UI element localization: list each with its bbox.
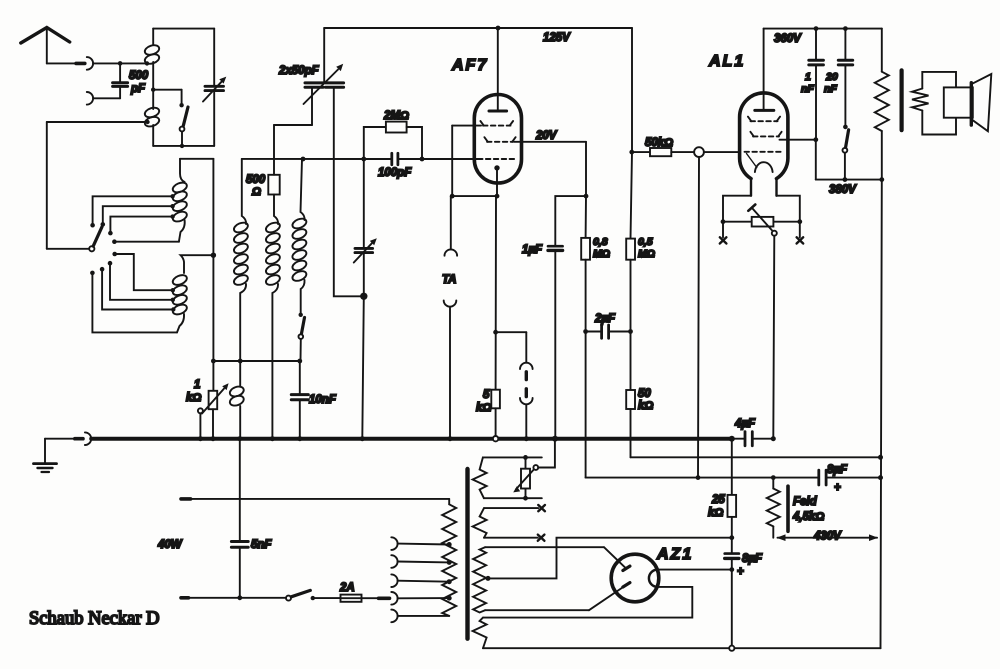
coil L2 frame top bbox=[180, 159, 213, 391]
AL1 grid internal tie bbox=[747, 154, 757, 168]
chassis bus rail bbox=[91, 436, 735, 442]
AL1 control grid bbox=[745, 151, 782, 153]
wire trimmer right to osc line bbox=[334, 89, 364, 297]
right supply rail bbox=[878, 180, 883, 649]
AF7 screen wire 20V bbox=[514, 130, 588, 199]
TA pickup jacks bbox=[442, 196, 457, 439]
wire W4 top to AZ1 filament bbox=[483, 587, 692, 618]
svg-text:MΩ: MΩ bbox=[638, 248, 655, 260]
svg-text:pF: pF bbox=[130, 83, 146, 95]
svg-text:+: + bbox=[737, 566, 744, 578]
AL1 filament bbox=[755, 162, 773, 172]
ground symbol bbox=[34, 439, 57, 472]
AZ1 anode 2 bbox=[623, 583, 630, 587]
power transformer primary bbox=[442, 499, 456, 616]
band switch S2 lever bbox=[89, 227, 102, 252]
coil L7 (osc tuned) bbox=[291, 159, 308, 313]
grid cap connector AL1 bbox=[694, 147, 740, 157]
svg-text:kΩ: kΩ bbox=[638, 400, 653, 412]
capacitor 1uF bbox=[522, 196, 586, 439]
AL1 heater circuit box bbox=[721, 196, 803, 224]
AZ1 anode 1 bbox=[623, 566, 630, 570]
potentiometer 1kOhm bbox=[186, 379, 229, 439]
coil L2 (RF coil) bbox=[170, 159, 188, 242]
capacitor 4uF bbox=[732, 418, 776, 446]
svg-text:2A: 2A bbox=[339, 582, 355, 594]
heater pin marks AL1 bbox=[720, 222, 803, 244]
annotation 430V bbox=[777, 531, 879, 543]
svg-text:1: 1 bbox=[194, 379, 200, 391]
wire contact6 to L3 tap2 bbox=[110, 263, 173, 300]
svg-text:2µF: 2µF bbox=[594, 313, 616, 325]
mains line lower bbox=[181, 596, 286, 600]
mains line upper bbox=[157, 499, 449, 551]
wire 50k bottom to right rail bbox=[631, 455, 884, 460]
svg-text:4µF: 4µF bbox=[734, 418, 756, 430]
node bus y361 bbox=[211, 359, 301, 364]
AL1 grid g3 bbox=[750, 132, 781, 137]
HT rail 360V bbox=[764, 26, 882, 45]
svg-text:380V: 380V bbox=[829, 184, 857, 196]
HV winding W3 bbox=[473, 547, 486, 612]
power transformer core bbox=[465, 469, 469, 639]
AL1 plate wire bbox=[780, 137, 819, 142]
svg-text:50kΩ: 50kΩ bbox=[645, 137, 673, 149]
AF7 grid g2 bbox=[452, 121, 513, 126]
svg-text:AZ1: AZ1 bbox=[656, 546, 693, 563]
tube AZ1 bbox=[611, 546, 693, 602]
field coil Feld 4.5kOhm bbox=[767, 478, 825, 538]
wire L1 bottom tap to switch pivot bbox=[47, 122, 148, 249]
svg-text:20V: 20V bbox=[535, 130, 558, 142]
antenna coil L1 bbox=[144, 29, 161, 146]
speaker cone bbox=[971, 74, 991, 131]
svg-text:1: 1 bbox=[805, 71, 811, 83]
wire contact2 to L2 tap2 bbox=[103, 206, 173, 224]
variable capacitor osc tuning bbox=[354, 159, 377, 439]
svg-text:Schaub Neckar D: Schaub Neckar D bbox=[29, 609, 159, 629]
svg-text:10nF: 10nF bbox=[309, 394, 337, 406]
capacitor 500pF bbox=[113, 63, 149, 98]
svg-text:AF7: AF7 bbox=[451, 57, 488, 74]
top HT rail 125V bbox=[324, 26, 632, 44]
svg-text:125V: 125V bbox=[543, 32, 571, 44]
svg-text:kΩ: kΩ bbox=[476, 402, 491, 414]
capacitor 8uF (cathode) bbox=[725, 538, 763, 651]
wire contact7 to L3 tap3 bbox=[102, 269, 173, 309]
tube AL1 bbox=[708, 53, 788, 196]
svg-text:nF: nF bbox=[801, 83, 814, 95]
svg-text:1µF: 1µF bbox=[522, 244, 543, 256]
earth input jack bbox=[87, 92, 120, 105]
AF7 cathode bbox=[452, 165, 499, 198]
wire contact5 to L3 tap1 bbox=[115, 254, 173, 290]
svg-text:AL1: AL1 bbox=[708, 53, 745, 70]
switch S1 (wave band) bbox=[179, 103, 188, 148]
node antenna-cap junction bbox=[118, 61, 123, 66]
svg-text:50: 50 bbox=[638, 388, 651, 400]
headphone jack bbox=[496, 332, 533, 439]
wire contact3 to L2 tap3 bbox=[110, 217, 172, 234]
svg-text:8µF: 8µF bbox=[742, 553, 763, 565]
coil L4 (osc coupling) bbox=[228, 361, 245, 439]
winding W2 (AZ1 heater) bbox=[473, 508, 539, 538]
grid line (tuned circuits to AF7) bbox=[242, 157, 478, 162]
svg-text:500: 500 bbox=[129, 70, 149, 82]
svg-text:kΩ: kΩ bbox=[186, 392, 201, 404]
coil L6 (grid coil) bbox=[265, 195, 282, 439]
AF7 control grid bbox=[478, 158, 516, 160]
svg-text:0,8: 0,8 bbox=[593, 236, 608, 248]
svg-text:nF: nF bbox=[824, 83, 837, 95]
resistor 50kOhm (plate load) bbox=[626, 332, 653, 458]
svg-text:MΩ: MΩ bbox=[593, 248, 610, 260]
resistor 50kOhm (AL1 grid stopper) bbox=[629, 137, 694, 156]
AL1 grid g2 bbox=[748, 117, 780, 122]
svg-text:360V: 360V bbox=[774, 33, 802, 45]
svg-text:Ω: Ω bbox=[251, 186, 261, 198]
coil L5 (antenna coupling sec) bbox=[233, 159, 250, 361]
wire HV top to AZ1 anode 1 bbox=[485, 547, 626, 568]
fuse 2A bbox=[339, 582, 378, 602]
switch mains bbox=[286, 590, 341, 600]
antenna jack bbox=[87, 57, 147, 70]
svg-text:8µF: 8µF bbox=[827, 464, 848, 476]
switch tone bbox=[843, 125, 849, 182]
winding W4 (AZ1 filament supply) bbox=[473, 618, 487, 649]
antenna plug bbox=[76, 62, 85, 66]
capacitor 20nF bbox=[824, 29, 853, 126]
coil L3 (osc coil) bbox=[171, 253, 216, 333]
switch S3 (osc) bbox=[299, 313, 305, 361]
svg-text:kΩ: kΩ bbox=[708, 507, 723, 519]
antenna tuned circuit frame bbox=[153, 29, 214, 146]
svg-text:2MΩ: 2MΩ bbox=[383, 110, 409, 122]
wire contact8 to L3 bottom bbox=[92, 273, 177, 333]
svg-text:5: 5 bbox=[483, 389, 490, 401]
svg-text:430V: 430V bbox=[813, 531, 842, 543]
wire HV bottom to AZ1 anode 2 bbox=[485, 585, 626, 610]
output transformer secondary with speaker frame bbox=[912, 72, 956, 135]
coil L1 tap wire bbox=[151, 88, 182, 104]
voltage selector jacks bbox=[391, 537, 449, 622]
heater pot lines bbox=[483, 455, 542, 501]
capacitor 100pF bbox=[378, 153, 412, 179]
AF7 anode bbox=[489, 28, 507, 111]
speaker diaphragm bar bbox=[970, 83, 973, 125]
resistor 25kOhm bbox=[708, 439, 736, 540]
wire contact4 to L2 bottom bbox=[114, 241, 178, 243]
wire AL1 grid return bbox=[696, 157, 701, 480]
capacitor 1nF bbox=[801, 29, 823, 140]
AL1 anode bbox=[755, 29, 774, 111]
AZ1 filament loop bbox=[649, 570, 657, 587]
potentiometer hum (mains) bbox=[513, 436, 558, 493]
svg-text:5nF: 5nF bbox=[251, 539, 272, 551]
resistor 2MOhm bbox=[364, 110, 422, 159]
wire 380V line bbox=[816, 140, 884, 196]
tube AF7 bbox=[451, 57, 522, 183]
bottom return line bbox=[483, 647, 881, 649]
capacitor 2uF bbox=[583, 313, 633, 338]
ground wire and plug bbox=[45, 432, 91, 445]
wire B+ screen line bbox=[586, 475, 881, 480]
wire hum pot wiper down bbox=[773, 236, 774, 439]
capacitor 8uF (screen) bbox=[819, 464, 848, 494]
antenna bbox=[21, 28, 76, 64]
svg-text:Feld: Feld bbox=[793, 496, 818, 508]
svg-text:100pF: 100pF bbox=[378, 167, 412, 179]
svg-text:40W: 40W bbox=[157, 539, 183, 551]
heater pin marks W2 bbox=[538, 505, 545, 541]
svg-text:TA: TA bbox=[442, 274, 456, 286]
output transformer core bbox=[899, 70, 903, 130]
svg-text:500: 500 bbox=[246, 174, 266, 186]
node big junction osc bbox=[360, 293, 367, 300]
heater winding W1 bbox=[473, 457, 487, 498]
svg-text:25: 25 bbox=[711, 494, 725, 506]
svg-text:+: + bbox=[834, 482, 841, 494]
resistor 500 Ohm bbox=[246, 89, 312, 198]
resistor 0.8MOhm bbox=[581, 196, 610, 478]
output transformer primary bbox=[875, 29, 889, 180]
capacitor 10nF bbox=[291, 359, 337, 439]
variable capacitor C-tune1 bbox=[203, 77, 226, 102]
speaker magnet bbox=[944, 87, 973, 117]
resistor 0.5MOhm bbox=[626, 28, 655, 332]
AF7 cathode resistor 5kOhm bbox=[476, 196, 500, 435]
svg-text:2x50pF: 2x50pF bbox=[278, 65, 320, 77]
mains plug and jack bbox=[379, 592, 450, 605]
band switch contacts bbox=[90, 222, 117, 275]
trimmer 2x50pF bbox=[278, 28, 344, 104]
capacitor 5nF bbox=[231, 439, 272, 600]
AF7 grid g3 (screen) bbox=[484, 137, 515, 142]
wire HV center tap bbox=[486, 538, 732, 581]
svg-text:4,5kΩ: 4,5kΩ bbox=[792, 511, 824, 523]
svg-text:0,5: 0,5 bbox=[638, 236, 653, 248]
wire contact1 to L2 tap1 bbox=[93, 196, 173, 225]
AF7 grid g2 return wire bbox=[450, 126, 455, 199]
wire AZ1 cathode output bbox=[657, 567, 734, 572]
potentiometer hum balance bbox=[748, 205, 777, 236]
svg-text:20: 20 bbox=[825, 71, 838, 83]
